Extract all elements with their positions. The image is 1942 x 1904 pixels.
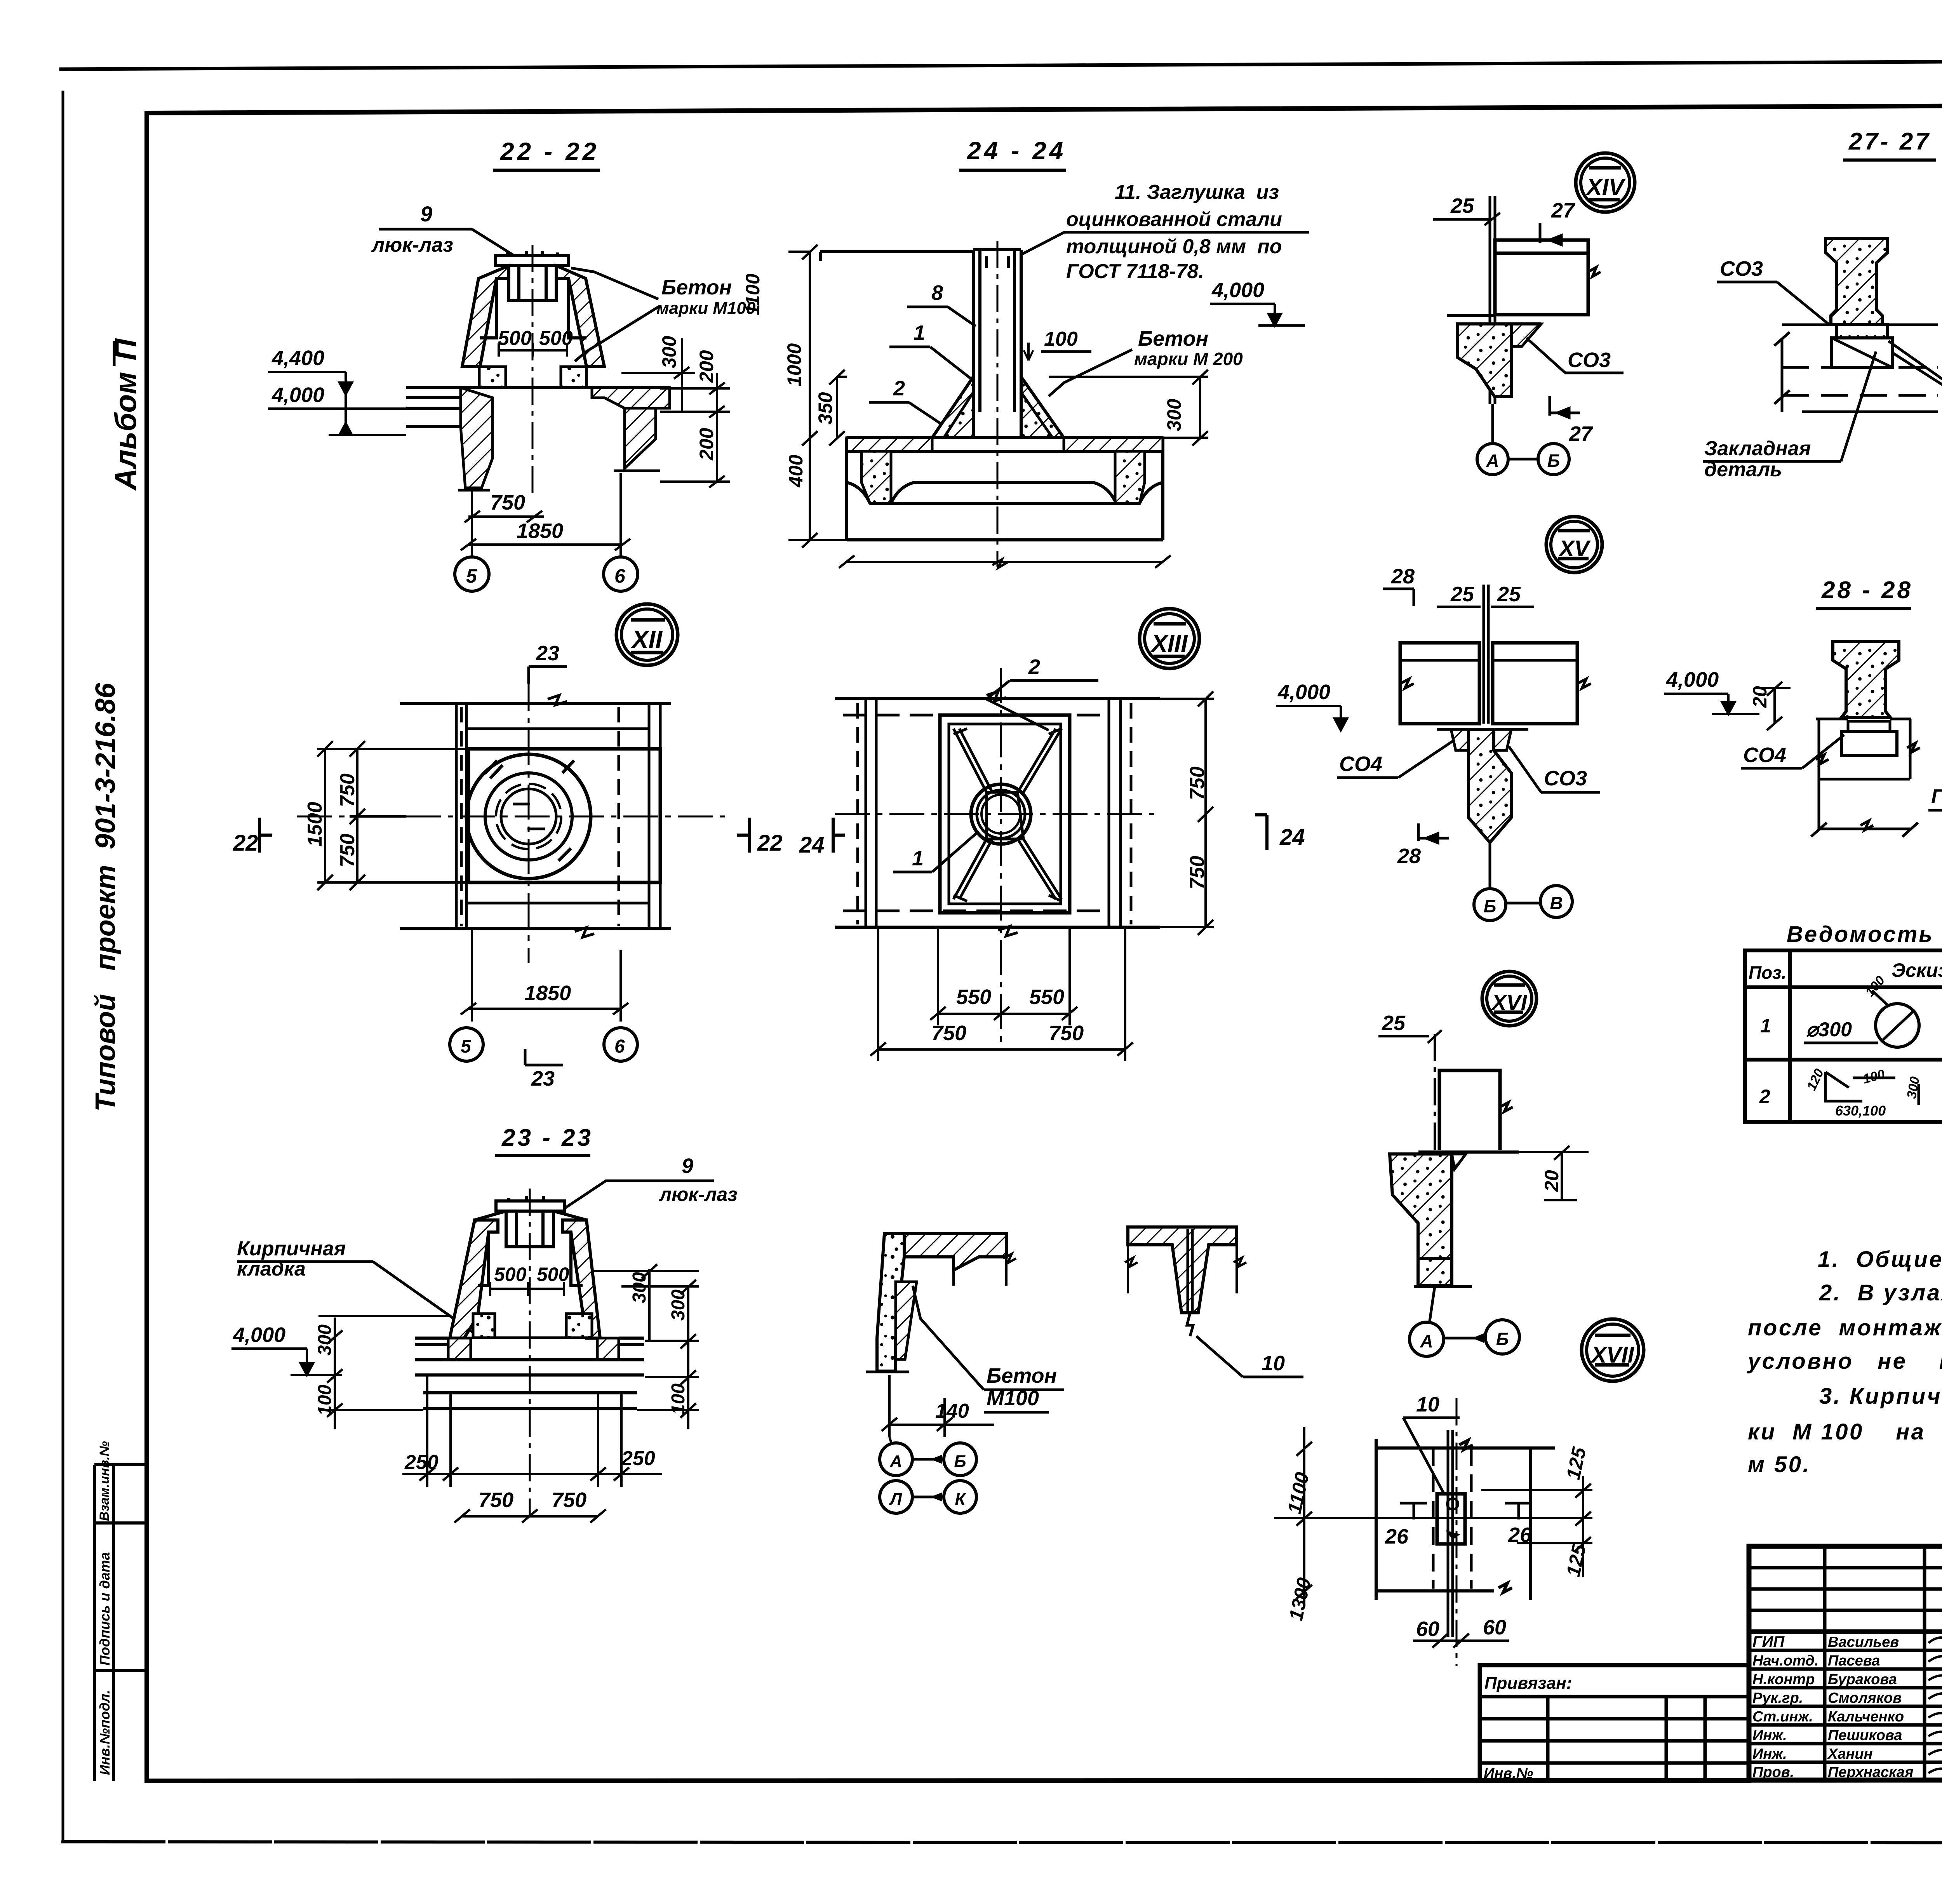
inner panel horizontal lines bbox=[466, 729, 649, 903]
base slabs bbox=[415, 1338, 644, 1409]
wedge right bbox=[1452, 1154, 1466, 1169]
svg-text:оцинкованной стали: оцинкованной стали bbox=[1066, 208, 1282, 231]
base feet ticks bbox=[458, 471, 660, 490]
svg-text:22: 22 bbox=[757, 830, 783, 856]
T-beam cross-section (hatched) bbox=[1825, 238, 1888, 325]
svg-text:Закладная: Закладная bbox=[1704, 437, 1811, 460]
right dims 300/200/200 bbox=[658, 336, 717, 461]
connecting line with arrow bbox=[1444, 1337, 1485, 1340]
signature rows text bbox=[1752, 1633, 1942, 1780]
svg-text:630,100: 630,100 bbox=[1835, 1103, 1886, 1119]
rib hatched left bbox=[861, 451, 891, 503]
svg-text:1850: 1850 bbox=[517, 519, 563, 543]
svg-text:10: 10 bbox=[1416, 1393, 1439, 1416]
svg-text:Эскиз: Эскиз bbox=[1892, 959, 1942, 981]
axis circle А bbox=[1410, 1322, 1444, 1356]
leader to cover bbox=[472, 229, 517, 257]
slab square outline double bbox=[940, 715, 1070, 913]
svg-text:Ханин: Ханин bbox=[1827, 1746, 1873, 1762]
ring hatch ticks bbox=[485, 761, 574, 861]
svg-text:25: 25 bbox=[1382, 1011, 1406, 1035]
svg-text:750: 750 bbox=[931, 1022, 966, 1045]
manhole cover plate bbox=[496, 251, 569, 266]
block below bbox=[1841, 731, 1897, 755]
leader from note to pipe bbox=[1021, 232, 1064, 254]
right haunch (concrete with dots) bbox=[1021, 377, 1064, 438]
svg-text:250: 250 bbox=[621, 1447, 655, 1470]
svg-text:1500: 1500 bbox=[304, 802, 326, 847]
svg-text:Бетон: Бетон bbox=[1138, 327, 1208, 350]
brick wall left (hatched) bbox=[450, 1220, 498, 1338]
right drop beam (hatched) bbox=[625, 408, 656, 468]
svg-text:ГИП: ГИП bbox=[1752, 1633, 1785, 1650]
left panel joints bbox=[858, 699, 876, 927]
svg-text:300: 300 bbox=[668, 1290, 689, 1321]
svg-text:300: 300 bbox=[1163, 399, 1185, 431]
title block outer bbox=[1749, 1546, 1942, 1780]
right panel joints bbox=[1109, 699, 1131, 927]
svg-text:20: 20 bbox=[1541, 1170, 1563, 1192]
svg-text:Альбом: Альбом bbox=[108, 372, 143, 491]
centerlines bbox=[835, 813, 1160, 815]
svg-text:ГОСТ 5264-80-Н1-д8: ГОСТ 5264-80-Н1-д8 bbox=[1931, 785, 1942, 808]
svg-text:2: 2 bbox=[1028, 655, 1040, 679]
wall inner face lines bbox=[480, 278, 586, 338]
dotted blocks bbox=[473, 1314, 495, 1338]
level arrows bbox=[329, 372, 406, 435]
left margin rotated label: Альбом II bbox=[108, 338, 143, 491]
floor slab bbox=[406, 388, 670, 426]
svg-text:Б: Б bbox=[1547, 451, 1560, 471]
vertical line from dim to circle bbox=[889, 1437, 891, 1443]
svg-text:1100: 1100 bbox=[742, 273, 764, 315]
svg-text:А: А bbox=[889, 1452, 902, 1471]
center axis vertical bbox=[1456, 1398, 1458, 1666]
svg-text:марки М100: марки М100 bbox=[656, 299, 756, 318]
svg-text:24: 24 bbox=[799, 832, 825, 858]
svg-text:24: 24 bbox=[1279, 825, 1305, 850]
inner base lines between walls bbox=[471, 1338, 597, 1360]
slab soffit lines bbox=[1437, 728, 1451, 731]
svg-text:Ст.инж.: Ст.инж. bbox=[1752, 1709, 1813, 1725]
svg-text:200: 200 bbox=[696, 428, 717, 461]
note 11 Заглушка bbox=[1066, 181, 1282, 283]
bearing pad bbox=[1836, 325, 1888, 338]
break marks bbox=[987, 691, 1018, 936]
svg-text:500: 500 bbox=[494, 1264, 527, 1285]
svg-text:60: 60 bbox=[1416, 1617, 1439, 1641]
center marks in opening bbox=[513, 804, 545, 829]
svg-text:300: 300 bbox=[658, 336, 680, 368]
axis to circle Б bbox=[1489, 842, 1491, 889]
svg-text:после монтажа лестницы. Н: после монтажа лестницы. На чертеже лестн… bbox=[1748, 1315, 1942, 1340]
plan top line bbox=[1376, 1439, 1555, 1600]
svg-text:4,000: 4,000 bbox=[233, 1323, 285, 1347]
svg-text:м 50.: м 50. bbox=[1748, 1452, 1811, 1477]
table frame bbox=[1745, 950, 1942, 1122]
axis circle 6 bbox=[604, 557, 638, 591]
svg-text:1000: 1000 bbox=[783, 343, 805, 386]
svg-text:Бетон: Бетон bbox=[987, 1364, 1057, 1387]
node circle XVII bbox=[1582, 1319, 1644, 1381]
haunch inner slope lines bbox=[944, 392, 1053, 438]
center axis horizontal bbox=[1274, 1517, 1592, 1519]
svg-text:1: 1 bbox=[912, 847, 924, 870]
svg-text:27: 27 bbox=[1569, 422, 1594, 446]
plan band horizontals bbox=[835, 699, 1160, 927]
vertical panel joint lines left bbox=[456, 703, 466, 928]
svg-text:Кирпичная: Кирпичная bbox=[237, 1237, 346, 1260]
svg-text:25: 25 bbox=[1450, 194, 1474, 218]
beam body bbox=[1495, 240, 1588, 315]
svg-text:23 - 23: 23 - 23 bbox=[501, 1124, 593, 1151]
svg-text:1850: 1850 bbox=[524, 982, 571, 1005]
svg-text:люк-лаз: люк-лаз bbox=[371, 234, 453, 256]
wall corner section top slab (hatched) bbox=[904, 1234, 1006, 1270]
svg-text:2: 2 bbox=[1759, 1086, 1770, 1107]
mortar wedge right (hatched) bbox=[1512, 324, 1541, 346]
svg-text:Пасева: Пасева bbox=[1828, 1653, 1880, 1669]
svg-text:ГОСТ 7118-78.: ГОСТ 7118-78. bbox=[1066, 260, 1204, 283]
svg-text:750: 750 bbox=[1049, 1022, 1084, 1045]
beam break mark bbox=[1588, 267, 1601, 277]
svg-text:А: А bbox=[1486, 451, 1499, 471]
svg-text:20: 20 bbox=[1749, 686, 1771, 708]
svg-text:Рук.гр.: Рук.гр. bbox=[1752, 1690, 1803, 1706]
svg-text:условно не показана.: условно не показана. bbox=[1747, 1349, 1942, 1374]
svg-text:Н.контр: Н.контр bbox=[1752, 1671, 1815, 1688]
manhole cover plate bbox=[496, 1196, 564, 1211]
axis circle Б bbox=[1474, 889, 1506, 921]
svg-text:⌀300: ⌀300 bbox=[1806, 1018, 1852, 1041]
bottom tick bbox=[866, 1371, 909, 1373]
dashed joint verticals bbox=[1433, 1448, 1471, 1589]
top slab with rib (hatched) bbox=[1128, 1227, 1237, 1313]
T-beam (hatched) bbox=[1833, 642, 1899, 717]
svg-text:4,000: 4,000 bbox=[1277, 680, 1330, 704]
svg-text:люк-лаз: люк-лаз bbox=[659, 1183, 738, 1205]
svg-text:Инв.№подл.: Инв.№подл. bbox=[97, 1690, 113, 1775]
svg-text:5: 5 bbox=[466, 565, 477, 587]
svg-text:100: 100 bbox=[1044, 328, 1078, 350]
svg-text:Б: Б bbox=[1484, 896, 1497, 916]
svg-text:А: А bbox=[1420, 1331, 1433, 1351]
svg-text:200: 200 bbox=[696, 350, 717, 383]
svg-text:Поз.: Поз. bbox=[1749, 962, 1786, 983]
slab block bbox=[1439, 1070, 1500, 1150]
opening rings bbox=[971, 784, 1031, 844]
center axis bbox=[997, 241, 999, 567]
joint double lines bbox=[1484, 585, 1488, 724]
axis circle 6 (plan) bbox=[604, 1028, 637, 1061]
svg-text:10: 10 bbox=[1262, 1352, 1285, 1375]
svg-text:ки М 100 на цементно-песч: ки М 100 на цементно-песчаном растворе м… bbox=[1748, 1419, 1942, 1445]
left margin small table (Инв/Подпись/Взам) bbox=[94, 1465, 147, 1781]
svg-text:28 - 28: 28 - 28 bbox=[1821, 577, 1913, 604]
node circle XIII bbox=[1140, 609, 1199, 668]
break marks on band bbox=[548, 695, 594, 937]
rib center joint lines bbox=[1188, 1229, 1192, 1313]
wall (hatched, widening downward) bbox=[1469, 729, 1511, 842]
inner long dashed lines bbox=[843, 715, 1107, 911]
svg-text:XIII: XIII bbox=[1150, 630, 1188, 657]
svg-text:9: 9 bbox=[420, 202, 432, 226]
axis circle А bbox=[1477, 444, 1508, 475]
X diagonals bbox=[954, 729, 1061, 899]
wall below (hatched with dots) bbox=[1390, 1154, 1452, 1258]
center axis bbox=[529, 1189, 531, 1515]
svg-text:Перхнаская: Перхнаская bbox=[1828, 1764, 1913, 1780]
connecting line bbox=[1506, 902, 1540, 905]
slab hatch right of shaft bbox=[592, 388, 670, 408]
svg-text:Инж.: Инж. bbox=[1752, 1746, 1787, 1762]
beam soffit line bbox=[1495, 322, 1541, 325]
trapezoid concrete wall left (hatched) bbox=[462, 266, 509, 367]
left haunch (concrete with dots) bbox=[932, 377, 973, 438]
left slab bbox=[1400, 643, 1479, 724]
corner hatch marks bbox=[954, 729, 1061, 901]
svg-text:350: 350 bbox=[814, 392, 836, 425]
svg-text:Пешикова: Пешикова bbox=[1828, 1727, 1902, 1744]
svg-text:4,000: 4,000 bbox=[1211, 278, 1264, 302]
svg-text:Пров.: Пров. bbox=[1752, 1764, 1794, 1780]
wall axis double line bbox=[1490, 196, 1495, 404]
rib double lines vertical bbox=[1448, 1430, 1453, 1637]
svg-text:В: В bbox=[1550, 893, 1563, 913]
mortar wedges bbox=[1451, 729, 1469, 750]
svg-text:26: 26 bbox=[1385, 1525, 1409, 1548]
svg-text:Буракова: Буракова bbox=[1828, 1671, 1897, 1688]
svg-text:750: 750 bbox=[336, 834, 359, 867]
brick wall right (hatched) bbox=[562, 1220, 600, 1338]
privyazan box bbox=[1480, 1665, 1749, 1781]
wall top slopes bbox=[475, 1211, 586, 1286]
svg-text:550: 550 bbox=[956, 985, 991, 1009]
svg-text:11. Заглушка из: 11. Заглушка из bbox=[1115, 181, 1279, 204]
axis line down to circle A bbox=[1491, 404, 1494, 444]
slab square outline bbox=[468, 749, 660, 882]
svg-text:СО3: СО3 bbox=[1568, 348, 1611, 372]
manhole neck bbox=[509, 266, 556, 301]
bottom dim line bbox=[839, 555, 1171, 568]
svg-text:СО4: СО4 bbox=[1743, 743, 1786, 767]
center axis bbox=[532, 245, 534, 497]
bottom anchor mark bbox=[1187, 1313, 1193, 1336]
axis dash-dot vertical bbox=[1434, 1034, 1436, 1286]
svg-text:К: К bbox=[955, 1490, 966, 1509]
vertical panel joint lines right bbox=[619, 703, 660, 928]
svg-text:23: 23 bbox=[531, 1067, 555, 1090]
node circle XV bbox=[1546, 517, 1602, 573]
slab line left of wall bbox=[1447, 314, 1495, 317]
svg-text:Подпись и дата: Подпись и дата bbox=[97, 1552, 113, 1666]
central embed rect bbox=[1437, 1494, 1465, 1544]
break marks bbox=[1400, 679, 1414, 688]
svg-text:СО4: СО4 bbox=[1339, 752, 1382, 776]
vent pipe bbox=[973, 250, 1021, 438]
axis line to circle А bbox=[1429, 1286, 1435, 1324]
svg-text:9: 9 bbox=[682, 1154, 693, 1178]
node circle XIV bbox=[1576, 153, 1635, 212]
svg-text:25: 25 bbox=[1450, 583, 1474, 606]
svg-text:Б: Б bbox=[1496, 1329, 1509, 1349]
svg-text:Ведомость деталей: Ведомость деталей bbox=[1787, 922, 1942, 947]
svg-text:5: 5 bbox=[461, 1036, 472, 1057]
opening rings bbox=[466, 754, 591, 879]
axis circle Б bbox=[1485, 1320, 1519, 1354]
svg-text:2: 2 bbox=[893, 377, 905, 400]
plan slab band horizontals bbox=[400, 703, 671, 928]
dotted concrete blocks at wall base bbox=[479, 367, 506, 388]
svg-text:Бетон: Бетон bbox=[661, 276, 732, 299]
bearing pad bbox=[1848, 721, 1890, 731]
svg-text:XII: XII bbox=[631, 625, 663, 653]
svg-text:СО3: СО3 bbox=[1720, 257, 1763, 280]
svg-text:400: 400 bbox=[785, 454, 807, 487]
svg-text:толщиной 0,8 мм по: толщиной 0,8 мм по bbox=[1066, 235, 1282, 258]
svg-text:6: 6 bbox=[614, 565, 626, 587]
rib hatched right bbox=[1115, 451, 1145, 503]
svg-text:22: 22 bbox=[233, 830, 258, 856]
wall top line bbox=[1774, 325, 1938, 412]
svg-text:Кальченко: Кальченко bbox=[1828, 1709, 1904, 1725]
svg-text:60: 60 bbox=[1483, 1616, 1506, 1639]
signature table rows bbox=[1749, 1566, 1942, 1570]
svg-text:4,400: 4,400 bbox=[271, 346, 324, 370]
axis circle В bbox=[1540, 886, 1572, 917]
ring beam hatched blocks bbox=[448, 1338, 471, 1360]
svg-text:23: 23 bbox=[536, 642, 559, 665]
svg-text:Нач.отд.: Нач.отд. bbox=[1752, 1653, 1818, 1669]
left dim 1500 bbox=[317, 741, 468, 890]
base slab bbox=[847, 538, 1163, 541]
inner trapezoid around circle bbox=[987, 792, 1023, 839]
svg-text:1. Общие указания приведе: 1. Общие указания приведены на листе 4. bbox=[1818, 1247, 1942, 1272]
wall corbel (hatched with dots) bbox=[1457, 324, 1512, 397]
node circle XVI bbox=[1482, 971, 1537, 1026]
right edge break bbox=[954, 1234, 1016, 1286]
soffit line bbox=[1418, 1150, 1519, 1154]
signature squiggles bbox=[1928, 1638, 1942, 1774]
svg-text:Инж.: Инж. bbox=[1752, 1727, 1787, 1744]
connecting line bbox=[1508, 458, 1538, 461]
svg-text:1: 1 bbox=[1760, 1015, 1771, 1037]
embedded block below bbox=[1832, 338, 1892, 367]
svg-text:Инв.№: Инв.№ bbox=[1484, 1765, 1533, 1782]
slab and wall lines bbox=[1811, 719, 1920, 837]
wall inner hatched part bbox=[896, 1282, 917, 1359]
svg-text:4,000: 4,000 bbox=[1666, 668, 1719, 691]
svg-text:Типовой проект 901-3-216.86: Типовой проект 901-3-216.86 bbox=[90, 682, 121, 1112]
node circle XII bbox=[616, 604, 678, 665]
axis circles А Б Л К bbox=[880, 1443, 912, 1476]
svg-text:1: 1 bbox=[914, 321, 925, 345]
svg-text:750: 750 bbox=[490, 491, 525, 514]
axis circle 5 bbox=[455, 557, 489, 591]
svg-text:8: 8 bbox=[931, 281, 943, 305]
ribbed underside bbox=[847, 451, 1163, 503]
svg-text:500: 500 bbox=[498, 327, 532, 350]
left drop beam (hatched) bbox=[461, 388, 492, 488]
svg-text:550: 550 bbox=[1029, 985, 1064, 1009]
svg-text:27- 27: 27- 27 bbox=[1848, 128, 1931, 155]
svg-text:Л: Л bbox=[889, 1490, 902, 1509]
centerline horizontal bbox=[297, 816, 727, 818]
side break lines bbox=[1125, 1227, 1246, 1293]
trapezoid concrete wall right (hatched) bbox=[556, 266, 604, 367]
svg-text:4,000: 4,000 bbox=[271, 383, 324, 407]
wall below (dotted concrete) bbox=[877, 1234, 904, 1371]
svg-text:750: 750 bbox=[336, 773, 359, 807]
centerline vertical bbox=[528, 676, 530, 963]
svg-text:Смоляков: Смоляков bbox=[1828, 1690, 1902, 1706]
axis circle Б bbox=[1538, 444, 1569, 475]
svg-text:марки М 200: марки М 200 bbox=[1134, 349, 1243, 369]
floor slab with hatch band bbox=[847, 438, 1163, 540]
svg-text:750: 750 bbox=[552, 1488, 586, 1512]
svg-text:Васильев: Васильев bbox=[1828, 1634, 1899, 1650]
wall bottom continuation bbox=[1418, 1258, 1452, 1286]
svg-text:22 - 22: 22 - 22 bbox=[500, 137, 599, 165]
axis circle 5 (plan) bbox=[450, 1028, 483, 1061]
manhole neck bbox=[506, 1211, 553, 1247]
svg-text:2. В узлах XI, XII укладку: 2. В узлах XI, XII укладку бетона осущес… bbox=[1819, 1280, 1942, 1305]
svg-text:Взам.инв.№: Взам.инв.№ bbox=[97, 1441, 112, 1521]
svg-text:28: 28 bbox=[1391, 565, 1415, 588]
signature table verticals bbox=[1823, 1546, 1827, 1780]
svg-text:24 - 24: 24 - 24 bbox=[967, 137, 1066, 165]
right slab bbox=[1493, 643, 1577, 724]
svg-text:3. Кирпичная кладка - красн: 3. Кирпичная кладка - красный кирпич мар… bbox=[1819, 1384, 1942, 1409]
svg-text:6: 6 bbox=[614, 1036, 625, 1057]
svg-text:XIV: XIV bbox=[1585, 174, 1626, 200]
svg-text:Привязан:: Привязан: bbox=[1484, 1674, 1572, 1693]
svg-text:27: 27 bbox=[1551, 199, 1576, 222]
svg-text:25: 25 bbox=[1497, 583, 1521, 606]
svg-text:28: 28 bbox=[1397, 844, 1421, 868]
svg-text:СО3: СО3 bbox=[1544, 767, 1587, 790]
roof slab top line bbox=[820, 252, 973, 261]
svg-text:Б: Б bbox=[954, 1452, 966, 1471]
svg-text:750: 750 bbox=[479, 1488, 513, 1512]
